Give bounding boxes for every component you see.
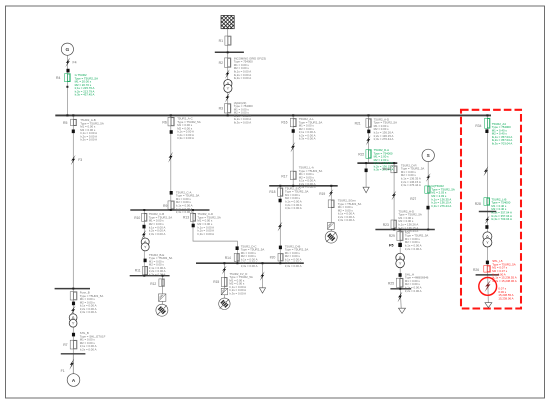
- junction R20 on bus M3: [279, 262, 281, 264]
- wire R10 branch bus M1 to bus M2: [143, 210, 145, 276]
- svg-text:R23: R23: [383, 223, 389, 227]
- bus M1 node C: [130, 209, 209, 211]
- relay branch D-R box: [391, 166, 397, 173]
- junction R15 on bus M3: [223, 262, 225, 264]
- junction R6 tap on main bus: [170, 114, 172, 116]
- breaker below R21: [367, 130, 370, 134]
- svg-text:SR1#: SR1#: [382, 167, 390, 171]
- fault lightning above incoming transformer: [225, 69, 230, 79]
- breaker arrow branch SR1: [365, 169, 368, 173]
- breaker F5: [398, 243, 402, 247]
- svg-text:R5: R5: [63, 121, 67, 125]
- svg-text:R21: R21: [355, 121, 361, 125]
- svg-text:R15: R15: [213, 280, 219, 284]
- relay R28 (green): [484, 198, 490, 206]
- breaker below R34: [485, 129, 488, 133]
- svg-text:R22: R22: [358, 153, 364, 157]
- bus E1 node L: [269, 185, 338, 187]
- bus F2 node H: [375, 229, 434, 231]
- junction R16 tap on main bus: [292, 114, 294, 116]
- relay R6: [168, 117, 174, 126]
- breaker below R13: [192, 224, 195, 228]
- external load arrow bus F3: [399, 308, 406, 313]
- red fault highlight circle: [479, 278, 497, 296]
- wire bus F3 to load arrow: [400, 289, 401, 308]
- inverter converter R19 branch: [327, 223, 334, 230]
- fault lightning feeder L4: [483, 166, 488, 176]
- svg-text:F4: F4: [73, 61, 77, 65]
- breaker below R5: [72, 130, 75, 134]
- junction load arrow on bus M3: [262, 262, 264, 264]
- external load arrow bus M3: [259, 288, 265, 293]
- svg-text:R2: R2: [219, 61, 223, 65]
- breaker below R18: [279, 199, 282, 203]
- fault F3 lightning: [71, 155, 76, 165]
- svg-text:A: A: [72, 378, 76, 384]
- relay R25: [396, 278, 403, 287]
- svg-text:R13: R13: [183, 215, 189, 219]
- relay R9: [168, 201, 174, 209]
- bus M3 node D: [196, 262, 304, 264]
- junction R23 on bus F2: [393, 229, 395, 231]
- junction S branch on bus F2: [427, 229, 429, 231]
- wire bus B3 segment above motor: [72, 354, 74, 374]
- junction on bus F3: [399, 288, 401, 290]
- svg-text:F1: F1: [61, 369, 65, 373]
- junction R5 tap on main bus: [72, 114, 74, 116]
- relay R1: [225, 36, 231, 45]
- transformer TR_L 2-winding: [483, 232, 492, 247]
- relay R4 (green): [65, 74, 71, 82]
- fault lightning below bus F3: [398, 292, 403, 303]
- svg-text:R7: R7: [63, 343, 67, 347]
- wire bus G2 to load arrow: [487, 275, 490, 303]
- junction incoming tap on bus D1: [227, 51, 229, 53]
- fault F1 lightning: [69, 359, 74, 370]
- wire generator G to main busbar: [66, 55, 68, 115]
- relay R10: [142, 213, 147, 221]
- inverter converter R15 branch: [221, 288, 227, 294]
- relay R18: [278, 188, 283, 196]
- external load arrow bus SR1: [363, 187, 369, 193]
- junction generator tap on main bus: [66, 114, 68, 116]
- svg-text:R19: R19: [319, 192, 325, 196]
- wire R23 branch bus SR1 to bus F2: [393, 163, 395, 229]
- relay Fuse_B: [70, 292, 77, 300]
- red dashed highlight rectangle: [461, 110, 521, 309]
- motor A asynchronous machine: [67, 374, 80, 387]
- wire arrow branch from bus SR1: [365, 163, 367, 187]
- svg-text:S: S: [427, 153, 430, 158]
- generator G1 synchronous machine: [61, 43, 73, 55]
- junction R21 tap on main bus: [367, 114, 369, 116]
- svg-text:R1: R1: [219, 39, 223, 43]
- breaker above R11: [144, 259, 147, 263]
- relay R22 (green): [366, 150, 371, 159]
- junction R10 on bus M1: [143, 209, 145, 211]
- svg-text:R34: R34: [475, 124, 481, 128]
- breaker above transformer L: [485, 225, 488, 229]
- wire feeder R34 down to bus G1: [486, 115, 488, 211]
- junction D-R branch on bus SR1: [393, 162, 395, 164]
- main busbar A 20kV: [55, 114, 491, 116]
- relay R12: [159, 279, 165, 287]
- svg-text:F3: F3: [78, 158, 82, 162]
- breaker above R20: [279, 246, 282, 250]
- wire R18 branch bus E1 to bus M3: [279, 186, 281, 263]
- fault lightning R15 branch: [222, 266, 227, 275]
- bus SR1: [357, 162, 397, 164]
- fault lightning above transformer B: [71, 306, 76, 315]
- svg-text:R4: R4: [56, 76, 60, 80]
- incoming transformer 2-winding: [224, 80, 232, 93]
- wire external grid to bus D1: [227, 29, 229, 53]
- svg-text:R12: R12: [150, 282, 156, 286]
- fault lightning feeder D: [366, 135, 371, 145]
- junction R34 tap on main bus: [486, 114, 488, 116]
- junction arrow branch on bus SR1: [365, 162, 367, 164]
- junction R19 on bus E1: [330, 185, 332, 187]
- breaker below R10: [142, 225, 145, 229]
- relay R19: [328, 200, 334, 208]
- fault F4 lightning: [65, 58, 70, 68]
- bus G2 right lower: [476, 274, 500, 276]
- wire feeder R21 down to bus SR1: [368, 115, 370, 163]
- svg-text:R27: R27: [410, 197, 416, 201]
- relay R13: [190, 213, 195, 221]
- relay R34 (green): [485, 118, 490, 128]
- transformer TR_B1 2-winding: [141, 238, 149, 251]
- junction R11 on bus M2: [143, 275, 145, 277]
- junction R17 on bus E1: [292, 185, 294, 187]
- fault lightning feeder L: [290, 142, 295, 152]
- PV static generator R19 branch: [325, 231, 337, 243]
- breaker below transformer B: [72, 333, 75, 337]
- svg-text:R3: R3: [219, 107, 223, 111]
- relay R16: [290, 118, 296, 126]
- wire incoming transformer branch to main busbar: [227, 52, 229, 115]
- fault lightning branch B: [141, 230, 146, 240]
- svg-text:R28: R28: [475, 202, 481, 206]
- svg-text:R6: R6: [162, 120, 166, 124]
- breaker below R27: [426, 206, 429, 210]
- svg-text:F5: F5: [389, 244, 393, 248]
- bus F3 lower: [390, 288, 411, 290]
- PV static generator R12 branch: [156, 304, 168, 316]
- junction below R4: [66, 86, 68, 88]
- svg-text:R25: R25: [388, 281, 394, 285]
- svg-text:G: G: [65, 47, 69, 53]
- svg-text:R14: R14: [225, 256, 231, 260]
- svg-text:R9: R9: [163, 204, 167, 208]
- relay R26 (red): [484, 266, 491, 273]
- inverter converter R12 branch: [159, 294, 166, 301]
- bus G1 right upper: [479, 211, 497, 213]
- relay R14: [234, 253, 239, 261]
- junction R9 on bus M1: [170, 209, 172, 211]
- fault lightning feeder C: [168, 152, 173, 163]
- fault lightning R19 branch: [329, 189, 334, 197]
- svg-text:R10: R10: [134, 216, 140, 220]
- svg-text:R17: R17: [281, 175, 287, 179]
- junction R14 on bus M3: [236, 262, 238, 264]
- svg-text:R16: R16: [281, 120, 287, 124]
- external load arrow feeder L4: [485, 303, 492, 308]
- svg-text:R18: R18: [269, 190, 275, 194]
- fault lightning load branch D: [260, 271, 265, 280]
- relay R23: [391, 220, 397, 228]
- fault lightning S branch: [426, 173, 431, 182]
- wire bus G1 to bus G2 through transformer: [486, 212, 488, 275]
- wire feeder R5 down to lower bus B2: [72, 115, 74, 288]
- fault lightning branch D-H: [391, 191, 396, 200]
- svg-text:R29: R29: [389, 234, 395, 238]
- wire R15 branch bus M3 to PV: [223, 263, 225, 298]
- wire feeder R6 down to bus M1: [170, 115, 172, 210]
- junction on bus B2: [72, 288, 74, 290]
- breaker below transformer L: [486, 261, 489, 265]
- PV static generator R15 branch: [219, 298, 230, 309]
- bus D1 incoming grid: [215, 51, 244, 53]
- external grid symbol: [221, 16, 234, 29]
- wire load arrow branch from bus M3: [262, 263, 264, 288]
- relay R7: [70, 340, 77, 349]
- relay R5: [71, 119, 77, 126]
- fault lightning branch E-D: [278, 222, 283, 232]
- relay R21: [366, 119, 371, 128]
- bus M2 node B: [130, 275, 170, 277]
- wire R13 branch with jog to R14: [193, 210, 237, 263]
- relay R3: [225, 104, 231, 113]
- junction R18 on bus E1: [279, 185, 281, 187]
- wire R19 branch bus E1 to PV: [330, 186, 332, 232]
- fault lightning below bus G1: [485, 216, 490, 225]
- junction R12 on bus M2: [162, 275, 164, 277]
- wire S machine down to bus F2: [427, 161, 429, 229]
- breaker above R14: [236, 246, 239, 250]
- svg-text:R11: R11: [135, 268, 141, 272]
- relay R27 (green): [425, 186, 430, 193]
- relay R29: [397, 232, 403, 241]
- bus B3 motor bus: [61, 353, 86, 355]
- fault lightning inside red circle: [485, 280, 491, 292]
- breaker below R6: [170, 130, 173, 134]
- junction incoming tap on main bus: [227, 114, 229, 116]
- junction R13 on bus M1: [192, 209, 194, 211]
- relay R17: [290, 171, 296, 179]
- wire bus B2 down to motor A: [72, 289, 74, 374]
- fault lightning below incoming transformer: [225, 93, 230, 103]
- relay R15: [221, 277, 227, 286]
- transformer TR_H 2-winding: [396, 253, 405, 267]
- breaker above R9: [170, 191, 173, 195]
- relay R11: [143, 266, 148, 275]
- wire transformer branch bus F2 to bus F3: [399, 230, 401, 289]
- transformer TR_B 2-winding: [69, 314, 77, 327]
- relay R20: [278, 253, 283, 261]
- junction transformer branch on bus F2: [399, 229, 401, 231]
- breaker below Fuse_B: [72, 302, 75, 306]
- svg-text:#20: #20: [270, 256, 276, 260]
- svg-text:R26: R26: [473, 268, 479, 272]
- static generator S: [422, 149, 434, 161]
- breaker below R16: [292, 129, 295, 133]
- breaker generator: [66, 69, 69, 73]
- bus B2 lower left: [55, 288, 90, 290]
- breaker below transformer H: [399, 273, 402, 277]
- wire feeder R16 down to bus E1: [292, 115, 294, 185]
- wire R12 branch to PV generator: [162, 276, 164, 305]
- relay R2: [225, 58, 231, 67]
